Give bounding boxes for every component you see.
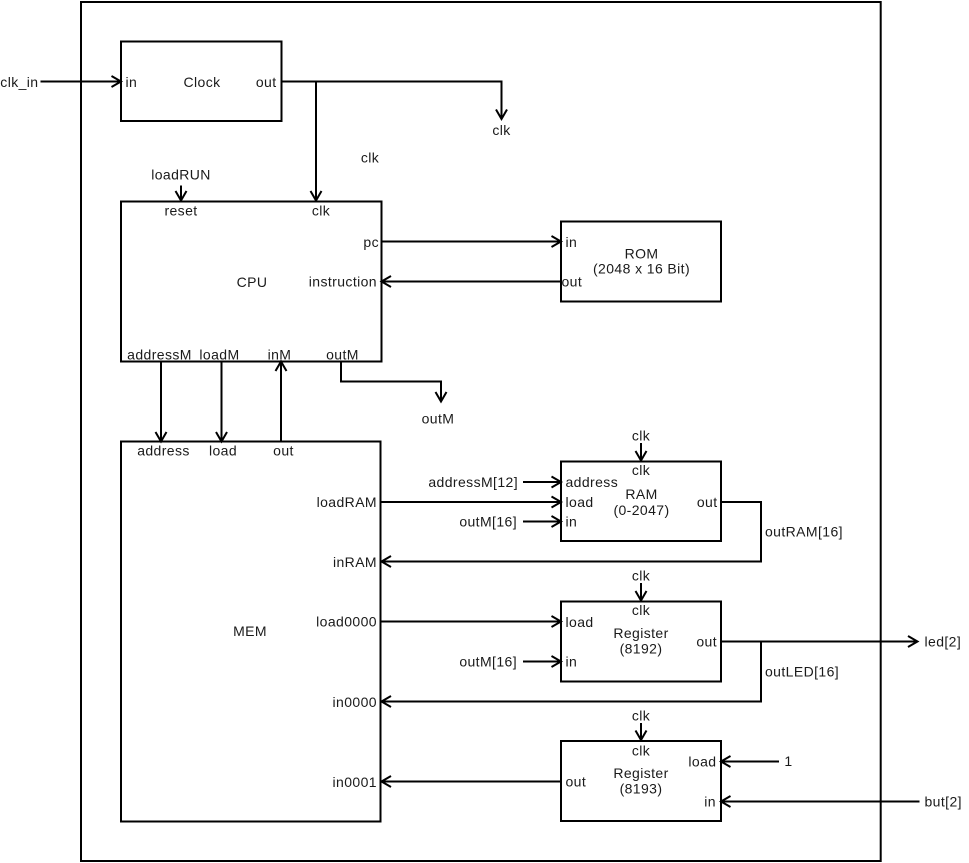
svg-text:but[2]: but[2]	[925, 794, 962, 810]
svg-text:load: load	[566, 494, 594, 510]
wire CPU.addressM to MEM.address	[156, 362, 167, 442]
svg-text:load0000: load0000	[316, 614, 377, 630]
svg-text:clk: clk	[632, 428, 651, 444]
svg-text:in0000: in0000	[333, 694, 377, 710]
wire but[2] input to Register8193.in	[721, 794, 962, 810]
svg-text:clk_in: clk_in	[0, 74, 38, 90]
svg-text:out: out	[273, 443, 294, 459]
svg-text:in: in	[704, 794, 716, 810]
svg-text:outM: outM	[422, 411, 455, 427]
svg-text:in: in	[566, 514, 578, 530]
svg-text:out: out	[562, 274, 583, 290]
wire clk to Register8193.clk	[632, 708, 651, 741]
svg-text:addressM: addressM	[127, 347, 192, 363]
block RAM U5 (0-2047)	[561, 462, 721, 542]
svg-text:loadRAM: loadRAM	[317, 494, 377, 510]
wire outLED[16] branch to MEM.in0000	[382, 642, 840, 708]
wire CPU.pc to ROM.in	[382, 236, 562, 247]
svg-text:instruction: instruction	[309, 274, 377, 290]
svg-text:Register: Register	[613, 625, 668, 641]
svg-text:(8193): (8193)	[620, 781, 663, 797]
wire ROM.out to CPU.instruction	[382, 276, 562, 287]
wire clk_in input to Clock.in	[0, 74, 121, 90]
svg-text:in0001: in0001	[333, 774, 377, 790]
block CPU U2	[121, 202, 382, 363]
wire outM[16] to RAM.in	[459, 514, 561, 530]
svg-text:ROM: ROM	[625, 246, 659, 262]
svg-text:outM[16]: outM[16]	[459, 654, 517, 670]
wire outM[16] to Register8192.in	[459, 654, 561, 670]
svg-text:led[2]: led[2]	[925, 634, 962, 650]
svg-text:out: out	[696, 634, 717, 650]
wire clk to RAM.clk	[632, 428, 651, 461]
svg-text:reset: reset	[164, 203, 197, 219]
svg-text:address: address	[137, 443, 190, 459]
wire clk branch to CPU.clk	[311, 82, 380, 201]
block ROM U3 (2048 x 16 Bit)	[561, 222, 721, 302]
svg-text:inM: inM	[268, 347, 292, 363]
svg-text:CPU: CPU	[237, 274, 268, 290]
svg-text:(2048 x 16 Bit): (2048 x 16 Bit)	[593, 261, 690, 277]
svg-text:outM[16]: outM[16]	[459, 514, 517, 530]
block Register U7 (8193)	[561, 741, 721, 821]
svg-text:loadM: loadM	[199, 347, 239, 363]
svg-text:clk: clk	[632, 743, 651, 759]
svg-text:1: 1	[784, 753, 792, 769]
svg-text:inRAM: inRAM	[333, 554, 377, 570]
svg-text:Clock: Clock	[183, 74, 221, 90]
wire Register8192.out to led[2] output	[721, 634, 961, 650]
svg-text:clk: clk	[632, 602, 651, 618]
svg-text:clk: clk	[361, 150, 380, 166]
wire CPU.loadM to MEM.load	[216, 362, 227, 442]
wire constant 1 to Register8193.load	[721, 753, 793, 769]
svg-text:in: in	[566, 654, 578, 670]
wire addressM[12] to RAM.address	[428, 474, 561, 490]
block Register U6 (8192)	[561, 602, 721, 682]
svg-text:address: address	[566, 474, 619, 490]
svg-text:load: load	[688, 754, 716, 770]
wire clk to Register8192.clk	[632, 568, 651, 601]
svg-text:(8192): (8192)	[620, 641, 663, 657]
svg-text:(0-2047): (0-2047)	[613, 502, 669, 518]
block Clock U1	[121, 42, 282, 122]
svg-text:clk: clk	[632, 708, 651, 724]
wire RAM.out to MEM.inRAM net outRAM[16]	[382, 502, 843, 567]
svg-text:load: load	[209, 443, 237, 459]
svg-text:clk: clk	[312, 203, 331, 219]
svg-text:clk: clk	[632, 568, 651, 584]
svg-text:out: out	[697, 494, 718, 510]
svg-text:addressM[12]: addressM[12]	[428, 474, 518, 490]
svg-text:load: load	[566, 614, 594, 630]
wire MEM.loadRAM to RAM.load	[381, 497, 562, 508]
svg-text:outRAM[16]: outRAM[16]	[765, 524, 843, 540]
wire CPU.outM to outM output	[341, 362, 454, 427]
wire MEM.load0000 to Register8192.load	[381, 616, 562, 627]
svg-text:outLED[16]: outLED[16]	[765, 664, 839, 680]
wire MEM.out to CPU.inM	[276, 362, 287, 442]
wire loadRUN input to CPU.reset	[151, 167, 211, 201]
svg-text:loadRUN: loadRUN	[151, 167, 211, 183]
wire Clock.out to clk output	[282, 82, 512, 139]
wire Register8193.out to MEM.in0001	[382, 776, 562, 787]
block MEM U4	[121, 442, 381, 822]
svg-text:in: in	[566, 234, 578, 250]
svg-text:outM: outM	[326, 347, 359, 363]
svg-text:clk: clk	[632, 462, 651, 478]
svg-text:pc: pc	[363, 234, 379, 250]
svg-text:in: in	[126, 74, 138, 90]
svg-text:out: out	[256, 74, 277, 90]
svg-text:RAM: RAM	[625, 486, 657, 502]
svg-text:clk: clk	[492, 122, 511, 138]
svg-text:MEM: MEM	[233, 623, 267, 639]
svg-text:Register: Register	[613, 765, 668, 781]
svg-text:out: out	[566, 774, 587, 790]
